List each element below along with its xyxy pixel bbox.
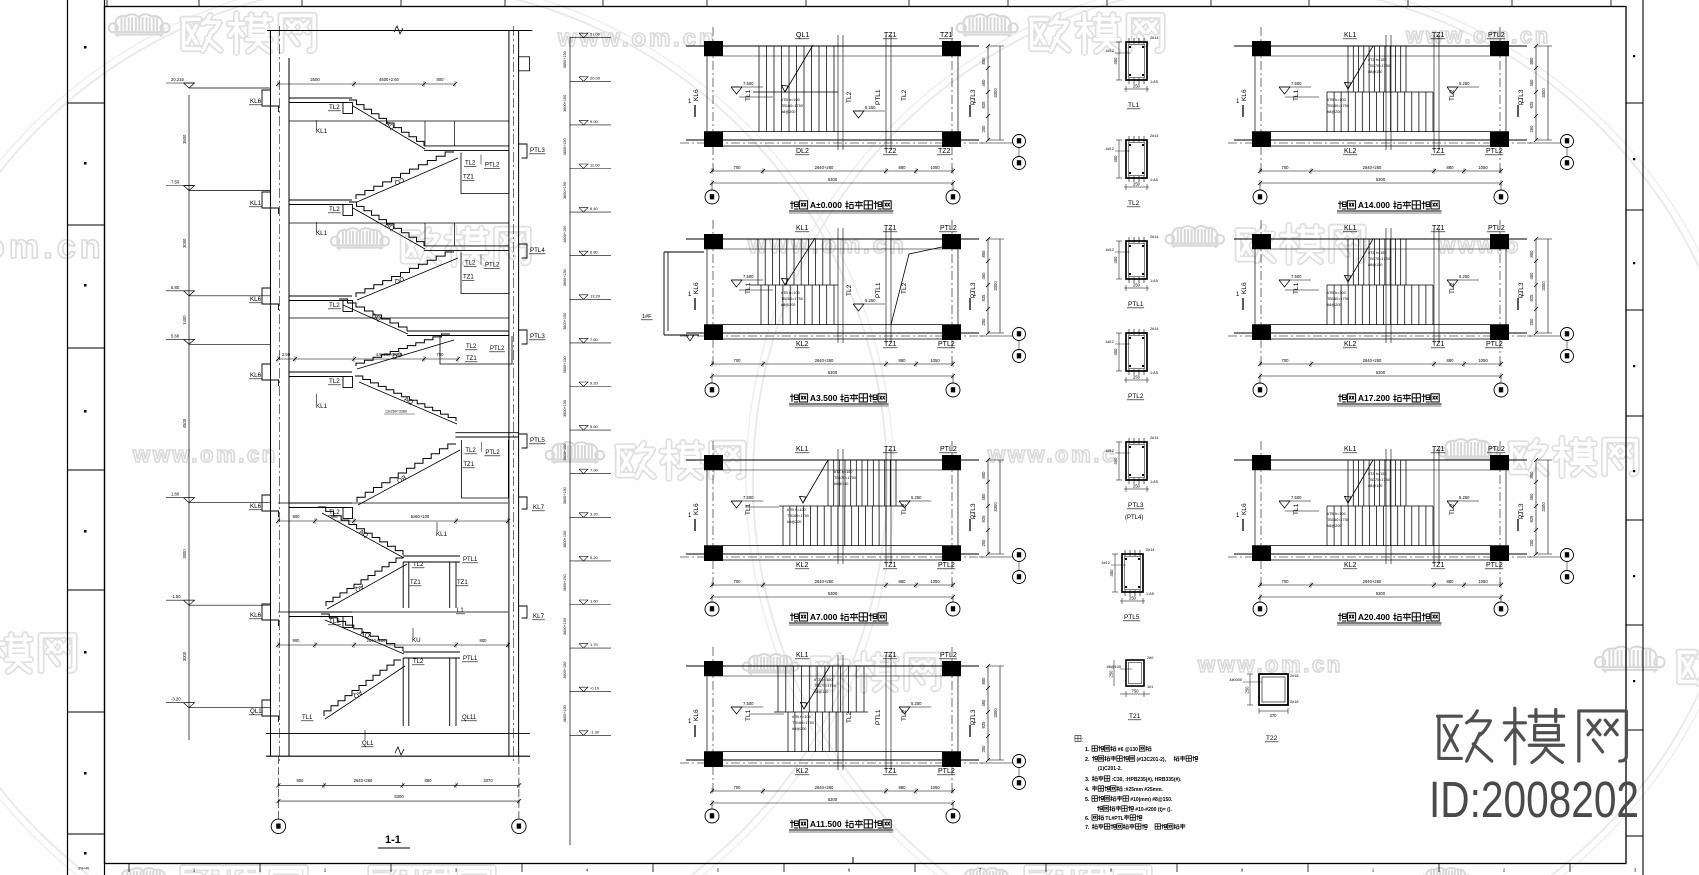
svg-text:850: 850 xyxy=(1529,471,1534,479)
plan level triangle left bay xyxy=(731,501,742,508)
plan right side dim line xyxy=(1535,460,1537,554)
plan level triangle right bay xyxy=(853,304,864,311)
svg-text:KL1: KL1 xyxy=(796,225,809,232)
svg-text:TZ1: TZ1 xyxy=(884,32,897,39)
svg-text:QL11: QL11 xyxy=(462,715,477,721)
svg-text:PTL2: PTL2 xyxy=(485,450,500,456)
section stair flight DQ xyxy=(339,299,407,331)
svg-text:5.250: 5.250 xyxy=(1459,274,1470,279)
plan frame beams xyxy=(1234,45,1527,47)
svg-text:#TZ h=150: #TZ h=150 xyxy=(1368,58,1386,62)
section right hook PTL4 xyxy=(519,244,527,258)
svg-text:-0.10: -0.10 xyxy=(590,686,600,691)
svg-text:3300: 3300 xyxy=(993,281,998,291)
beam section detail PTL1 xyxy=(1126,241,1147,279)
section top slab line xyxy=(267,30,533,32)
svg-text:4.5x250+2550: 4.5x250+2550 xyxy=(376,352,403,357)
svg-text:460: 460 xyxy=(981,79,986,87)
svg-text:TZ1: TZ1 xyxy=(884,446,897,453)
svg-text:TZ1: TZ1 xyxy=(884,341,897,348)
svg-text:PTL2: PTL2 xyxy=(485,163,500,169)
svg-text:850: 850 xyxy=(1529,57,1534,65)
svg-text::C30, :HPB235(#), HRB335(#).: :C30, :HPB235(#), HRB335(#). xyxy=(1112,777,1182,783)
svg-text:3300: 3300 xyxy=(993,708,998,718)
svg-text:370: 370 xyxy=(1270,713,1278,718)
svg-text:#TB h=100: #TB h=100 xyxy=(781,291,800,295)
plan frame beams xyxy=(1234,459,1527,461)
svg-text:TB160=1750: TB160=1750 xyxy=(792,721,814,725)
svg-text:TL2: TL2 xyxy=(329,104,340,111)
svg-text:1050: 1050 xyxy=(1478,165,1488,170)
svg-text:om.cn: om.cn xyxy=(0,228,105,266)
plan TZ1 column vertical pairs xyxy=(837,655,839,770)
svg-text:7.500: 7.500 xyxy=(1291,274,1302,279)
svg-text:TL1: TL1 xyxy=(1293,89,1300,101)
plan dimension rows below xyxy=(712,170,953,172)
section stair flight BQ xyxy=(349,202,424,246)
section left elevation dim line xyxy=(188,95,190,740)
svg-text:1:A5: 1:A5 xyxy=(1150,279,1158,283)
svg-text:#8@200: #8@200 xyxy=(1327,303,1341,307)
svg-text:PTL4: PTL4 xyxy=(530,247,545,254)
svg-text:2640+260: 2640+260 xyxy=(354,778,373,783)
svg-text:KL1: KL1 xyxy=(316,128,328,135)
svg-text:2#14: 2#14 xyxy=(1150,436,1158,440)
svg-text:460: 460 xyxy=(981,493,986,501)
section stair flight AQ xyxy=(355,376,456,421)
plan TZ1 column vertical pairs xyxy=(837,228,839,343)
plan frame beams xyxy=(686,665,979,667)
section level mark 7.50 xyxy=(184,186,195,191)
svg-text:5.: 5. xyxy=(1085,797,1090,803)
svg-text:PTL3: PTL3 xyxy=(530,147,545,154)
svg-text:250: 250 xyxy=(1129,596,1137,601)
beam detail dims PTL5 xyxy=(1120,600,1145,602)
column section detail T21 xyxy=(1126,660,1144,686)
svg-text:2.50: 2.50 xyxy=(282,352,291,357)
svg-text:3600+150: 3600+150 xyxy=(563,95,567,112)
svg-text:#10-#200 (t)= ().: #10-#200 (t)= (). xyxy=(1135,807,1172,813)
plan interior stair treads xyxy=(1347,460,1349,506)
svg-text:TL2: TL2 xyxy=(1449,282,1456,294)
section half landing slab right xyxy=(424,145,509,147)
svg-text:TZ1: TZ1 xyxy=(1432,225,1445,232)
watermark sofa+logo mid-right xyxy=(1166,226,1224,248)
svg-text:800: 800 xyxy=(480,638,488,643)
svg-text:TZ1: TZ1 xyxy=(884,225,897,232)
svg-text:3600+150: 3600+150 xyxy=(563,705,567,722)
svg-text:TZ1: TZ1 xyxy=(1432,341,1445,348)
plan TZ1 column vertical pairs xyxy=(837,35,839,150)
plan dimension rows below xyxy=(712,584,953,586)
svg-text:KL6: KL6 xyxy=(1241,503,1248,515)
svg-text:TZ1: TZ1 xyxy=(1432,148,1445,155)
watermark sofa+logo top-right xyxy=(957,14,1018,37)
watermark circle right xyxy=(753,0,1699,875)
svg-text:1050: 1050 xyxy=(930,165,940,170)
svg-text:L1: L1 xyxy=(457,608,464,614)
svg-text:3000: 3000 xyxy=(182,549,187,559)
svg-text:KL6: KL6 xyxy=(250,612,262,619)
svg-text:7.500: 7.500 xyxy=(743,495,754,500)
svg-text:1050: 1050 xyxy=(930,358,940,363)
svg-text:2.: 2. xyxy=(1085,757,1090,763)
sheet outer trim line left xyxy=(67,0,69,875)
svg-text:PTL1: PTL1 xyxy=(875,709,882,725)
beam detail dims PTL2 xyxy=(1124,379,1149,381)
svg-text:TB160=1750: TB160=1750 xyxy=(787,514,809,518)
svg-text:PTL2: PTL2 xyxy=(938,562,955,569)
svg-text:2640+200: 2640+200 xyxy=(367,638,386,643)
svg-text:TZ1: TZ1 xyxy=(1432,562,1445,569)
watermark sofa+logo row4-mid xyxy=(743,654,799,675)
svg-text:PTL2: PTL2 xyxy=(1486,341,1503,348)
svg-text:PTL2: PTL2 xyxy=(938,768,955,775)
plan interior stair treads xyxy=(777,666,779,712)
section flight dim text xyxy=(384,413,415,415)
svg-text:250: 250 xyxy=(1133,182,1141,187)
plan right grid bubbles xyxy=(979,762,1013,764)
svg-text:250: 250 xyxy=(1529,125,1534,133)
plan section cut marks xyxy=(694,105,696,117)
svg-text:925: 925 xyxy=(981,721,986,729)
svg-text:KL7: KL7 xyxy=(533,504,545,511)
section stair flight AQ xyxy=(324,660,401,716)
svg-text:700: 700 xyxy=(734,358,742,363)
svg-text:2#14: 2#14 xyxy=(1150,235,1158,239)
svg-text::#25mm #25mm.: :#25mm #25mm. xyxy=(1124,787,1164,793)
svg-text:460: 460 xyxy=(1529,79,1534,87)
svg-text:20.00: 20.00 xyxy=(590,75,601,80)
plan title xyxy=(1338,201,1346,209)
svg-text:1050: 1050 xyxy=(930,579,940,584)
svg-text:700: 700 xyxy=(734,785,742,790)
svg-text:PTL2: PTL2 xyxy=(940,652,957,659)
section stair flight AQ xyxy=(326,558,403,606)
svg-text:www.om.cn: www.om.cn xyxy=(557,25,717,52)
section left wall xyxy=(270,31,272,757)
svg-text:5.250: 5.250 xyxy=(911,701,922,706)
section beam hook KL6 xyxy=(262,495,279,517)
plan frame beams xyxy=(686,459,979,461)
svg-text:460: 460 xyxy=(981,699,986,707)
svg-text:1.60: 1.60 xyxy=(590,599,599,604)
section right hook PTL3 xyxy=(519,330,527,344)
plan axis dashed lines xyxy=(1260,27,1262,172)
svg-text:2#14: 2#14 xyxy=(1150,134,1158,138)
svg-text:KL6: KL6 xyxy=(1241,282,1248,294)
svg-text:5.20: 5.20 xyxy=(590,555,599,560)
svg-text:3500: 3500 xyxy=(182,134,187,144)
svg-text:TB170=1750: TB170=1750 xyxy=(1368,64,1390,68)
section floor line 612 xyxy=(278,611,508,613)
svg-text:KL1: KL1 xyxy=(1344,32,1357,39)
svg-text:5300: 5300 xyxy=(828,177,838,182)
plan frame beams xyxy=(686,238,979,240)
section right hook PTL5 xyxy=(519,434,527,448)
section right wall xyxy=(508,31,510,757)
beam section detail PTL2 xyxy=(1126,333,1147,371)
svg-text:2640+260: 2640+260 xyxy=(815,579,834,584)
svg-text:6.: 6. xyxy=(1085,816,1090,822)
section stairwell edge verticals xyxy=(424,121,426,146)
svg-text:TL2: TL2 xyxy=(901,282,908,294)
svg-text:1.70: 1.70 xyxy=(590,642,599,647)
section landing 652 T columns xyxy=(403,651,460,653)
svg-text:460: 460 xyxy=(1529,493,1534,501)
svg-text:250: 250 xyxy=(1133,375,1141,380)
svg-text:9.00: 9.00 xyxy=(590,119,599,124)
svg-text:DL2: DL2 xyxy=(796,148,809,155)
svg-text:5.250: 5.250 xyxy=(1459,495,1470,500)
plan level triangle right bay xyxy=(1447,280,1458,287)
svg-text:PTL3: PTL3 xyxy=(1128,502,1144,509)
svg-text:13x260=3380: 13x260=3380 xyxy=(385,410,407,414)
svg-text:KU: KU xyxy=(412,637,421,644)
section floor landing slab left xyxy=(289,371,352,373)
svg-text:4#12: 4#12 xyxy=(1106,248,1114,252)
svg-text:3600+150: 3600+150 xyxy=(563,618,567,635)
section beam hook QL1 xyxy=(262,700,279,722)
svg-text:2#18: 2#18 xyxy=(1290,674,1298,678)
svg-text:460: 460 xyxy=(1529,272,1534,280)
svg-text:TL2: TL2 xyxy=(846,711,853,723)
plan section cut marks xyxy=(1242,105,1244,117)
svg-text:1:A5: 1:A5 xyxy=(1150,371,1158,375)
plan dimension rows below xyxy=(712,363,953,365)
plan level triangle right bay xyxy=(853,111,864,118)
section beam hook KL6 xyxy=(262,604,279,626)
svg-text:#8@150: #8@150 xyxy=(814,690,828,694)
svg-text:KL6: KL6 xyxy=(250,503,262,510)
plan grid bubbles bottom xyxy=(711,597,713,602)
svg-text:TL2: TL2 xyxy=(465,448,476,454)
svg-text:TB160=1750: TB160=1750 xyxy=(1327,104,1349,108)
plan frame beams xyxy=(686,45,979,47)
svg-text:3.20: 3.20 xyxy=(590,511,599,516)
svg-text:TZ1: TZ1 xyxy=(466,356,477,362)
plan axis dashed lines xyxy=(1260,441,1262,586)
svg-text:PTL1: PTL1 xyxy=(1128,301,1144,308)
plan right grid bubbles xyxy=(979,142,1013,144)
svg-text:20.216: 20.216 xyxy=(171,77,184,82)
section half landing slab right xyxy=(407,330,509,332)
watermark sofa+logo row3-mid xyxy=(546,442,604,464)
svg-text:8.40: 8.40 xyxy=(590,206,599,211)
svg-text:TL2: TL2 xyxy=(846,284,853,296)
plan dimension rows below xyxy=(1260,170,1501,172)
svg-text:QL1: QL1 xyxy=(796,32,809,39)
svg-text:5300: 5300 xyxy=(1376,370,1386,375)
svg-text:850: 850 xyxy=(1529,250,1534,258)
svg-text:#TB h=100: #TB h=100 xyxy=(787,508,806,512)
svg-text:7.500: 7.500 xyxy=(1291,495,1302,500)
svg-text:KL6: KL6 xyxy=(693,709,700,721)
section level mark -1.50 xyxy=(184,600,195,605)
section bottom dims xyxy=(278,784,519,786)
svg-text:TZ1: TZ1 xyxy=(457,580,468,586)
plan axis dashed lines xyxy=(712,441,714,586)
notes block xyxy=(1075,736,1081,742)
svg-text:5300: 5300 xyxy=(1376,591,1386,596)
svg-text:TL1: TL1 xyxy=(302,715,313,721)
section stair flight CQ xyxy=(356,334,450,366)
svg-text:3600+150: 3600+150 xyxy=(563,444,567,461)
svg-text:880: 880 xyxy=(899,165,907,170)
svg-text:#TZ h=150: #TZ h=150 xyxy=(834,470,852,474)
plan level triangle left bay xyxy=(1279,280,1290,287)
section stair flight AQ xyxy=(318,507,403,555)
svg-text:4#0000: 4#0000 xyxy=(1229,678,1242,682)
svg-text:2640+260: 2640+260 xyxy=(815,358,834,363)
watermark bottom strip logos xyxy=(116,868,172,875)
section half landing slab right xyxy=(424,245,509,247)
svg-text:2#14: 2#14 xyxy=(1150,327,1158,331)
svg-text:5300: 5300 xyxy=(828,797,838,802)
svg-text:880: 880 xyxy=(1447,358,1455,363)
svg-text:5300: 5300 xyxy=(828,370,838,375)
section grid bubbles xyxy=(277,756,279,819)
svg-text:TL1: TL1 xyxy=(745,282,752,294)
svg-text:5300: 5300 xyxy=(1376,177,1386,182)
svg-text:KL1: KL1 xyxy=(796,446,809,453)
svg-text:TB160=1750: TB160=1750 xyxy=(1327,297,1349,301)
svg-text:KL1: KL1 xyxy=(1344,225,1357,232)
svg-text:925: 925 xyxy=(981,294,986,302)
svg-text:www.om.cn: www.om.cn xyxy=(747,232,907,259)
svg-text:(#13C201-2),: (#13C201-2), xyxy=(1137,757,1167,763)
svg-text:#6 @130: #6 @130 xyxy=(1118,747,1138,753)
svg-text:925: 925 xyxy=(1529,515,1534,523)
svg-text:700: 700 xyxy=(1282,358,1290,363)
svg-text:700: 700 xyxy=(1282,165,1290,170)
svg-text:TL1: TL1 xyxy=(1128,102,1140,109)
svg-text:TL2: TL2 xyxy=(1449,89,1456,101)
section interior dim row 3 xyxy=(278,520,508,522)
plan level triangle left bay xyxy=(731,280,742,287)
plan right grid bubbles xyxy=(1527,556,1561,558)
plan title xyxy=(790,613,798,621)
svg-text:5300: 5300 xyxy=(828,591,838,596)
svg-text:KL2: KL2 xyxy=(796,768,809,775)
section under-landing room box xyxy=(461,440,508,498)
svg-text:2640+260: 2640+260 xyxy=(1363,358,1382,363)
svg-text:7.500: 7.500 xyxy=(743,701,754,706)
svg-text:925: 925 xyxy=(1529,101,1534,109)
svg-text:5.250: 5.250 xyxy=(911,495,922,500)
svg-text:KL1: KL1 xyxy=(796,652,809,659)
column section detail T22 xyxy=(1259,674,1288,705)
plan interior stair treads xyxy=(758,46,760,92)
svg-text:250: 250 xyxy=(1245,686,1250,694)
svg-text:TB160=1750: TB160=1750 xyxy=(1327,518,1349,522)
svg-text:TL2: TL2 xyxy=(329,206,340,213)
beam section detail PTL5 xyxy=(1122,554,1143,592)
plan grid bubbles bottom xyxy=(1259,376,1261,383)
svg-text:460: 460 xyxy=(981,272,986,280)
plan right grid bubbles xyxy=(979,556,1013,558)
svg-text:3%+40: 3%+40 xyxy=(78,867,89,871)
beam detail dims PTL3 xyxy=(1124,488,1149,490)
svg-text:PTL2: PTL2 xyxy=(1486,562,1503,569)
section level mark -3.20 xyxy=(184,703,195,708)
svg-text:#10(mm) #8@150.: #10(mm) #8@150. xyxy=(1130,797,1173,803)
svg-text:TZ1: TZ1 xyxy=(410,580,421,586)
section level mark 1.60 xyxy=(184,498,195,503)
svg-text:1050: 1050 xyxy=(930,785,940,790)
section stairwell edge verticals xyxy=(424,223,426,246)
svg-text:450: 450 xyxy=(1113,155,1118,163)
svg-text:www.om.c: www.om.c xyxy=(987,442,1117,467)
svg-text:880: 880 xyxy=(1447,165,1455,170)
svg-text:TL2: TL2 xyxy=(901,89,908,101)
svg-text:TZ1: TZ1 xyxy=(1432,32,1445,39)
plan dimension rows below xyxy=(712,790,953,792)
section stair flight AQ xyxy=(321,614,403,651)
svg-text:3300: 3300 xyxy=(1541,502,1546,512)
plan level triangle right bay xyxy=(1447,87,1458,94)
plan level triangle right bay xyxy=(899,707,910,714)
plan interior stair treads xyxy=(1347,239,1349,285)
svg-text:PTL1: PTL1 xyxy=(463,656,478,662)
plan interior stair treads xyxy=(757,239,759,285)
svg-text:#TB h=100: #TB h=100 xyxy=(1327,291,1346,295)
svg-text:450: 450 xyxy=(1113,348,1118,356)
section interior dim row mid xyxy=(278,358,458,360)
svg-text:TL1: TL1 xyxy=(745,503,752,515)
svg-text:TL2: TL2 xyxy=(465,161,476,167)
svg-text:PTL2: PTL2 xyxy=(1488,32,1505,39)
section beam hook KL6 xyxy=(262,364,279,386)
svg-text:QL1: QL1 xyxy=(250,708,262,715)
svg-text:T22: T22 xyxy=(1266,735,1278,742)
svg-text:2500: 2500 xyxy=(310,77,320,82)
svg-text:KL6: KL6 xyxy=(250,98,262,105)
plan level triangle left bay xyxy=(731,707,742,714)
svg-text:A11.500: A11.500 xyxy=(810,819,842,829)
svg-text:250: 250 xyxy=(1133,84,1141,89)
svg-text:TZ1: TZ1 xyxy=(884,768,897,775)
plan right side dim line xyxy=(987,46,989,140)
plan TZ1 column vertical pairs xyxy=(1385,228,1387,343)
plan level triangle right bay xyxy=(1447,501,1458,508)
plan interior stair treads xyxy=(1347,46,1349,92)
svg-text:#8@200: #8@200 xyxy=(781,303,795,307)
plan level triangle left bay xyxy=(1279,501,1290,508)
svg-text:3600+150: 3600+150 xyxy=(563,226,567,243)
watermark circle left xyxy=(0,0,887,875)
svg-text:A3.500: A3.500 xyxy=(810,393,838,403)
section right wall hook storey6 xyxy=(519,606,527,618)
svg-text:www.om.cn: www.om.cn xyxy=(1405,23,1551,48)
section under-landing room box xyxy=(440,336,512,364)
svg-text:#TZ h=150: #TZ h=150 xyxy=(1368,472,1386,476)
svg-text:#TZ h=150: #TZ h=150 xyxy=(1368,251,1386,255)
plan title xyxy=(790,394,798,402)
svg-text:700: 700 xyxy=(734,165,742,170)
svg-text:1050: 1050 xyxy=(1478,358,1488,363)
plan axis dashed lines xyxy=(712,220,714,365)
svg-text:TL2: TL2 xyxy=(901,503,908,515)
svg-text:2640+260: 2640+260 xyxy=(815,165,834,170)
plan right grid bubbles xyxy=(979,335,1013,337)
svg-text:#8@200: #8@200 xyxy=(781,110,795,114)
svg-text:QL1: QL1 xyxy=(362,741,374,747)
svg-text:3600+150: 3600+150 xyxy=(563,138,567,155)
sheet right margin strip xyxy=(1642,0,1644,875)
plan up arrow xyxy=(804,666,830,709)
svg-text:800: 800 xyxy=(437,77,445,82)
